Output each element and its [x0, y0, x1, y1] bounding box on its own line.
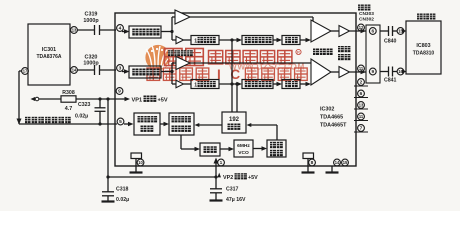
- wire R308 to U302 pin9 VP1: [76, 97, 122, 100]
- frequency-phase detector block: [169, 113, 194, 135]
- wire C841 to IC803, pin 16: [393, 68, 407, 75]
- output buffer label: [338, 46, 350, 60]
- svg-text:1: 1: [220, 160, 223, 166]
- wire amp2 to adder2: [190, 62, 311, 64]
- svg-text:C841: C841: [384, 78, 397, 84]
- signal clamp block channel 2: [129, 66, 161, 78]
- wire terminal to R308: [39, 98, 61, 100]
- wire to delay line 2: [184, 83, 192, 85]
- svg-text:R: R: [297, 50, 300, 55]
- wire to phase detector: [160, 122, 169, 126]
- wire C319 to U302 pin4: [100, 29, 117, 31]
- wire C320 to U302 pin3: [100, 69, 117, 71]
- wire connector to C841: [380, 71, 388, 73]
- wire C840 to IC803, pin 15: [393, 28, 407, 35]
- capacitor C841: [384, 67, 397, 84]
- capacitor C840: [384, 26, 397, 45]
- wire phase detector to PLL: [181, 135, 200, 151]
- svg-text:IC302: IC302: [320, 107, 334, 113]
- VP2 rail: [106, 175, 217, 178]
- U302 right-edge pin 7: [354, 125, 368, 132]
- connector pin 9: [369, 68, 376, 75]
- U302 right-edge pin 2: [354, 79, 368, 86]
- IC U803 TDA8310 (PIP): [406, 14, 441, 75]
- wire VCO to doubler: [253, 146, 267, 150]
- capacitor C320 1000p: [83, 54, 99, 75]
- U302 right-edge pin 6: [354, 90, 368, 97]
- svg-text:C320: C320: [85, 54, 98, 60]
- wire buffer1 to connector, pin 12 of U302: [350, 24, 367, 33]
- resistor R308 4.7: [61, 90, 76, 112]
- wire PLL to VCO: [220, 147, 234, 151]
- low-pass block ch1: [282, 36, 300, 45]
- capacitor C319 1000p: [83, 12, 99, 36]
- svg-text:9: 9: [118, 89, 121, 95]
- pin 15 of U302: [342, 159, 349, 166]
- output buffer ch1: [339, 26, 350, 37]
- svg-text:192: 192: [229, 117, 240, 123]
- svg-text:17: 17: [23, 69, 28, 74]
- wire to delay line 1: [184, 39, 192, 41]
- svg-text:IC301: IC301: [42, 47, 56, 53]
- wire node to direct amp ch2: [161, 63, 176, 73]
- svg-text:IC803: IC803: [416, 43, 430, 49]
- adder label: [313, 49, 333, 56]
- svg-text:+5V: +5V: [158, 98, 168, 104]
- ground: [326, 166, 339, 173]
- svg-text:C840: C840: [384, 39, 397, 45]
- svg-text:6: 6: [371, 29, 374, 35]
- svg-text:11: 11: [359, 114, 364, 119]
- svg-text:CN302: CN302: [359, 16, 374, 22]
- ground: [210, 199, 223, 201]
- U302 right-edge pin 11: [354, 113, 368, 120]
- svg-text:C319: C319: [85, 12, 98, 18]
- wire node to delay path ch2: [172, 72, 176, 85]
- svg-text:15: 15: [343, 160, 348, 165]
- capacitor C317 47u 16V: [210, 187, 246, 204]
- wire lowpass2 to adder2: [300, 82, 311, 86]
- ground: [102, 200, 115, 202]
- svg-text:+5V: +5V: [248, 175, 258, 181]
- svg-text:6: 6: [360, 91, 363, 97]
- svg-text:10: 10: [138, 160, 143, 165]
- svg-text:0.02µ: 0.02µ: [116, 197, 129, 203]
- line pulse detector block: [134, 113, 160, 135]
- resistor on pin 8: [303, 153, 314, 166]
- wire IC301 pin14 to C320: [78, 69, 95, 71]
- svg-text:VCO: VCO: [238, 150, 249, 156]
- svg-text:0.02µ: 0.02µ: [75, 114, 88, 120]
- svg-text:4: 4: [119, 26, 122, 32]
- direct-path amplifier ch1: [175, 10, 190, 24]
- wire clamp1 to node: [161, 30, 174, 33]
- svg-text:5: 5: [119, 119, 122, 125]
- svg-text:2: 2: [360, 80, 363, 86]
- adder ch2: [311, 59, 331, 85]
- clock wire from 192-divider to sample-holds: [232, 40, 239, 112]
- U302 right-edge pin 13: [354, 102, 368, 109]
- wire doubler to 192-divider: [247, 123, 278, 140]
- svg-text:13: 13: [359, 103, 364, 108]
- IC U301 TDA8376A: [28, 24, 70, 85]
- 6MHz VCO block: [234, 140, 253, 157]
- wire lowpass1 to adder1: [300, 38, 311, 42]
- pin 3 of U302 (channel-2 input): [117, 65, 130, 74]
- 192 divider block: [222, 112, 246, 133]
- svg-text:4.7: 4.7: [65, 106, 73, 112]
- wire flyback to U302 pin5: [19, 123, 117, 125]
- wire IC301 pin13 to C319: [78, 29, 95, 31]
- 1-line delay block ch2: [191, 80, 219, 89]
- inverter amp ch1 (small): [176, 36, 184, 43]
- svg-text:C323: C323: [78, 102, 91, 108]
- connector pin 6: [369, 28, 376, 35]
- pin 1 of U302 (VP2 supply): [214, 158, 225, 189]
- svg-text:6MHz: 6MHz: [237, 143, 250, 149]
- svg-text:VP1: VP1: [132, 98, 143, 104]
- output buffer ch2: [339, 67, 350, 78]
- label VP1 analog +5V: [132, 96, 168, 104]
- svg-text:14: 14: [335, 160, 340, 165]
- capacitor C323 0.02u: [75, 99, 106, 126]
- pin 8 of U302: [309, 159, 316, 166]
- wire IC301 pin17 down (flyback pulse): [19, 71, 22, 124]
- label: line flyback pulse input: [25, 117, 71, 123]
- low-pass block ch2: [282, 80, 300, 89]
- wire buffer2 to connector, pin 11 of U302: [350, 65, 367, 74]
- wire 192-divider to phase detector (feedback): [195, 123, 223, 127]
- svg-text:C317: C317: [226, 187, 239, 193]
- wire node to direct amp ch1: [172, 17, 175, 32]
- flyback input arrow: [17, 119, 22, 125]
- wire adder2 to buffer2: [331, 71, 339, 73]
- svg-text:1000p: 1000p: [83, 61, 99, 67]
- svg-text:C318: C318: [116, 187, 129, 193]
- inverter amp label: [168, 50, 193, 56]
- pin 14 of U302: [334, 159, 341, 166]
- ground: [130, 166, 143, 173]
- PLL (phase lock) block: [200, 143, 220, 156]
- pin 13 of IC301 (R-Y out): [71, 27, 78, 34]
- ground: [302, 166, 315, 173]
- adder ch1: [311, 20, 331, 42]
- wire delay1 to sample-hold 1, clock node A: [219, 38, 242, 42]
- wire amp1 to adder1: [190, 17, 313, 25]
- svg-text:1: 1: [194, 83, 197, 89]
- svg-text:47µ 16V: 47µ 16V: [226, 197, 246, 203]
- crystal/resistor on pin 10: [131, 153, 142, 166]
- svg-text:3: 3: [119, 66, 122, 72]
- wire connector to C840: [380, 30, 388, 32]
- signal clamp block channel 1: [129, 26, 161, 38]
- svg-text:14: 14: [72, 68, 77, 73]
- pin 5 of U302 (flyback input): [117, 118, 133, 126]
- IC U302 TDA4665 block outline: [115, 13, 356, 166]
- svg-text:13: 13: [72, 28, 77, 33]
- svg-text:7: 7: [360, 126, 363, 132]
- svg-text:TDA4665T: TDA4665T: [320, 123, 347, 129]
- wire sh1 to lowpass1: [273, 38, 282, 42]
- capacitor C318 0.02u: [102, 99, 129, 203]
- wire adder1 to buffer1: [331, 30, 339, 32]
- wire node to delay amp ch1: [172, 32, 176, 41]
- pin 17 of IC301 (sandcastle out): [22, 68, 29, 75]
- pin 10 of U302: [137, 159, 144, 166]
- pin 4 of U302 (channel-1 input): [117, 25, 130, 34]
- wire delay2 to sample-hold 2, clock node B: [219, 82, 242, 86]
- sample and hold block ch1: [242, 36, 273, 45]
- 1-line delay block ch1: [191, 36, 219, 45]
- frequency doubler block: [267, 140, 286, 157]
- sample and hold block ch2: [242, 80, 273, 89]
- svg-text:WWW.DZSC.COM: WWW.DZSC.COM: [229, 62, 305, 71]
- svg-text:9: 9: [371, 69, 374, 75]
- pin 9 of U302 (VP1 supply): [116, 88, 130, 102]
- svg-text:CN303: CN303: [359, 11, 374, 17]
- pin 14 of IC301 (B-Y out): [71, 67, 78, 74]
- wire sh2 to lowpass2: [273, 82, 282, 86]
- input terminal (from regulator): [31, 97, 39, 101]
- svg-text:1: 1: [194, 39, 197, 45]
- connector CN303/CN302: [358, 5, 380, 84]
- label VP2 digital +5V: [217, 173, 258, 181]
- inverter amp ch2 (small): [176, 80, 184, 87]
- svg-text:R308: R308: [62, 90, 75, 96]
- svg-text:1000p: 1000p: [83, 18, 99, 24]
- svg-text:TDA8310: TDA8310: [413, 51, 435, 57]
- svg-text:VP2: VP2: [223, 175, 233, 181]
- svg-text:TDA4665: TDA4665: [320, 115, 343, 121]
- svg-text:8: 8: [311, 160, 314, 166]
- svg-text:TDA8376A: TDA8376A: [36, 54, 61, 60]
- direct-path amplifier ch2: [176, 57, 190, 70]
